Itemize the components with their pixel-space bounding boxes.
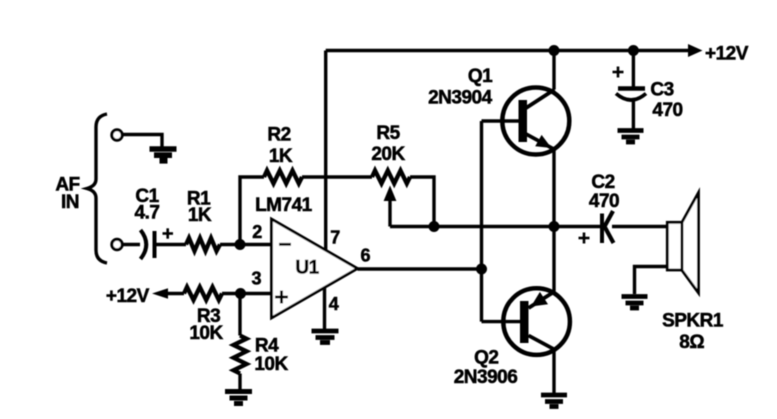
svg-text:4: 4 [329,294,339,314]
ground G2 under R4 [225,392,252,404]
node pin2 junction [235,239,246,250]
wire Q2 base [482,320,521,323]
minus input symbol [279,243,291,246]
svg-text:2N3906: 2N3906 [454,367,518,388]
ground G3 under op-amp [312,331,339,343]
svg-text:R2: R2 [267,125,290,146]
resistor R1 [186,238,220,251]
R5 wiper arrow [384,186,397,202]
transistor Q2 [503,288,570,355]
wire C3 to ground [632,99,635,129]
svg-text:C3: C3 [650,80,673,101]
svg-text:1K: 1K [269,146,293,167]
wire Q2 collector to ground [552,350,555,395]
wire R1 to pin2 node [220,243,272,246]
svg-text:LM741: LM741 [255,195,313,216]
wire C1 to R1 [155,243,186,246]
wire rail to C3 [632,51,635,87]
svg-text:IN: IN [61,192,79,213]
resistor R4 [234,336,247,374]
svg-text:20K: 20K [371,144,405,165]
svg-text:8Ω: 8Ω [679,332,704,353]
svg-text:1K: 1K [188,205,212,226]
wire pin2 node up to R2 [240,177,264,245]
ground G4 under C3 [618,131,644,143]
node rail C3 [628,45,639,56]
C3 plus polarity [613,67,624,78]
capacitor C2 [600,214,604,244]
node output junction [549,221,560,232]
svg-text:10K: 10K [254,354,288,375]
ground G5 at speaker [622,297,648,309]
pin 7 wire from rail [324,51,327,251]
svg-text:Q2: Q2 [474,348,498,369]
input terminal bottom [112,239,122,249]
node pin3 junction [235,288,246,299]
svg-text:R5: R5 [376,123,400,144]
resistor R3 [184,287,222,300]
AF IN bracket [87,114,107,263]
wire R4 to ground [238,374,241,391]
ground G6 under Q2 [541,395,567,407]
capacitor C1 [141,230,147,259]
svg-text:C2: C2 [591,172,614,193]
svg-text:4.7: 4.7 [135,203,160,224]
speaker ground wire [635,267,668,295]
potentiometer R5 [372,171,410,184]
ground G1 input shield [150,149,177,161]
feedback output wire [390,225,600,228]
svg-text:2N3904: 2N3904 [428,88,492,109]
resistor R2 [264,171,302,184]
wire terminal top to ground [123,135,163,148]
wire pin3 node down to R4 [238,294,241,336]
wire R2 to R5 [302,175,372,178]
svg-text:U1: U1 [295,258,319,279]
svg-text:7: 7 [330,228,340,248]
wire Q2 emitter up to output node [552,227,555,292]
wire arrow to R3 [165,292,184,295]
svg-text:6: 6 [361,246,371,266]
wire Q1 emitter down to output node [552,150,555,227]
svg-text:10K: 10K [189,323,223,344]
+12V arrow left [152,288,168,298]
pin 4 wire [323,288,326,331]
transistor Q1 [502,88,569,155]
node base drive junction [476,264,487,275]
output wire pin6 [358,267,482,270]
speaker SPKR1 [667,193,698,294]
svg-text:SPKR1: SPKR1 [662,311,724,332]
capacitor C3 [618,86,645,91]
svg-text:Q1: Q1 [468,66,493,87]
C1 plus polarity [163,228,174,238]
wire R3 to pin3 [222,292,272,295]
plus input symbol [275,291,288,304]
wire Q1 base [482,119,519,122]
svg-text:3: 3 [251,268,261,288]
wire C2 to speaker [612,225,667,228]
C2 plus polarity [579,233,590,244]
input terminal top [112,130,122,140]
node rail Q1 [549,45,560,56]
svg-text:470: 470 [652,100,682,121]
base drive vertical wire [480,121,483,322]
svg-text:470: 470 [589,191,619,212]
wire terminal to C1 [123,243,141,246]
+12V arrow right [688,44,703,57]
op-amp U1 [272,219,358,318]
wire R5 right end down to feedback node [410,177,434,227]
node R5 junction [429,221,440,232]
svg-text:+12V: +12V [106,286,150,307]
+12V rail wire [326,49,689,52]
wire Q1 collector to rail [552,51,555,90]
svg-text:2: 2 [252,222,262,242]
svg-text:+12V: +12V [705,43,749,64]
